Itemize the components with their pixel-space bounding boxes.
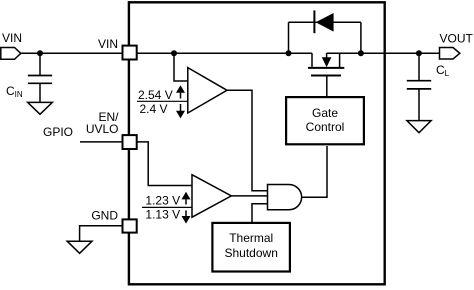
pin EN/UVLO (123, 135, 137, 149)
comparator U2 (VIN UVLO) (188, 68, 227, 113)
block Thermal Shutdown (212, 223, 290, 272)
svg-text:1.23 V: 1.23 V (145, 194, 180, 208)
output terminal VOUT (440, 48, 460, 60)
wire VIN input to pin (19, 52, 124, 54)
transistor Q1 pass FET (308, 53, 344, 96)
wire pin EN to comparator U3 (136, 142, 192, 186)
ground (GND pin) (67, 241, 92, 253)
wire inverting input underline U2 (137, 100, 188, 102)
wire rail to VOUT (right segment) (327, 52, 440, 54)
node diode left (286, 50, 292, 56)
svg-text:2.54 V: 2.54 V (138, 88, 173, 102)
svg-text:CL: CL (436, 63, 450, 78)
pin VIN (123, 46, 137, 60)
svg-text:GPIO: GPIO (43, 125, 73, 139)
wire rail VIN (left segment) (136, 52, 312, 54)
wire thermal shutdown to AND (252, 204, 268, 223)
svg-text:1.13 V: 1.13 V (145, 208, 180, 222)
capacitor CIN (28, 53, 52, 102)
svg-text:CIN: CIN (6, 84, 23, 99)
arrow down (U3 hysteresis) (182, 210, 191, 223)
comparator U3 (EN) (192, 175, 231, 218)
svg-text:ThermalShutdown: ThermalShutdown (225, 231, 278, 260)
wire GPIO to pin EN/UVLO (80, 141, 124, 143)
svg-text:VIN: VIN (98, 37, 118, 51)
svg-text:2.4 V: 2.4 V (140, 102, 168, 116)
AND gate U4 (268, 185, 302, 210)
node input junction (37, 50, 43, 56)
wire GND pin to ground (80, 226, 124, 241)
diode D1 (body diode) (289, 10, 361, 53)
wire inverting input underline U3 (142, 206, 192, 208)
wire AND output to gate control (302, 146, 327, 197)
arrow up (U3 hysteresis) (182, 192, 191, 205)
ground (CIN) (28, 102, 53, 114)
node VOUT junction (416, 50, 422, 56)
wire U2 output to AND (227, 90, 268, 191)
wire rail junction to comparator U2 (174, 53, 188, 81)
node rail A (171, 50, 177, 56)
node diode right (358, 50, 364, 56)
pin GND (123, 219, 137, 232)
svg-text:VIN: VIN (2, 31, 22, 45)
arrow up (U2 hysteresis) (176, 85, 185, 98)
ground (CL) (407, 121, 431, 133)
block Gate Control (286, 97, 364, 144)
svg-text:UVLO: UVLO (86, 122, 119, 136)
svg-text:GND: GND (91, 208, 118, 222)
wire U3 output to AND (231, 195, 267, 197)
IC outline U1 (129, 2, 385, 284)
arrow down (U2 hysteresis) (176, 104, 185, 118)
input terminal VIN (1, 48, 21, 60)
svg-text:VOUT: VOUT (440, 31, 474, 45)
capacitor CL (407, 53, 431, 120)
